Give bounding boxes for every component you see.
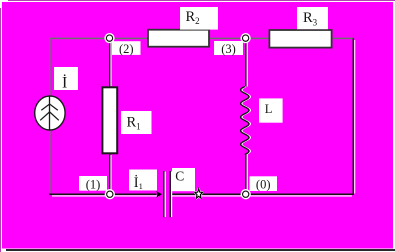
svg-text:(3): (3)	[221, 42, 236, 56]
svg-text:(1): (1)	[86, 177, 101, 191]
svg-text:(0): (0)	[256, 178, 271, 192]
svg-text:İ: İ	[62, 74, 67, 92]
svg-text:C: C	[175, 169, 184, 184]
svg-text:L: L	[265, 102, 273, 116]
svg-text:(2): (2)	[119, 42, 134, 56]
